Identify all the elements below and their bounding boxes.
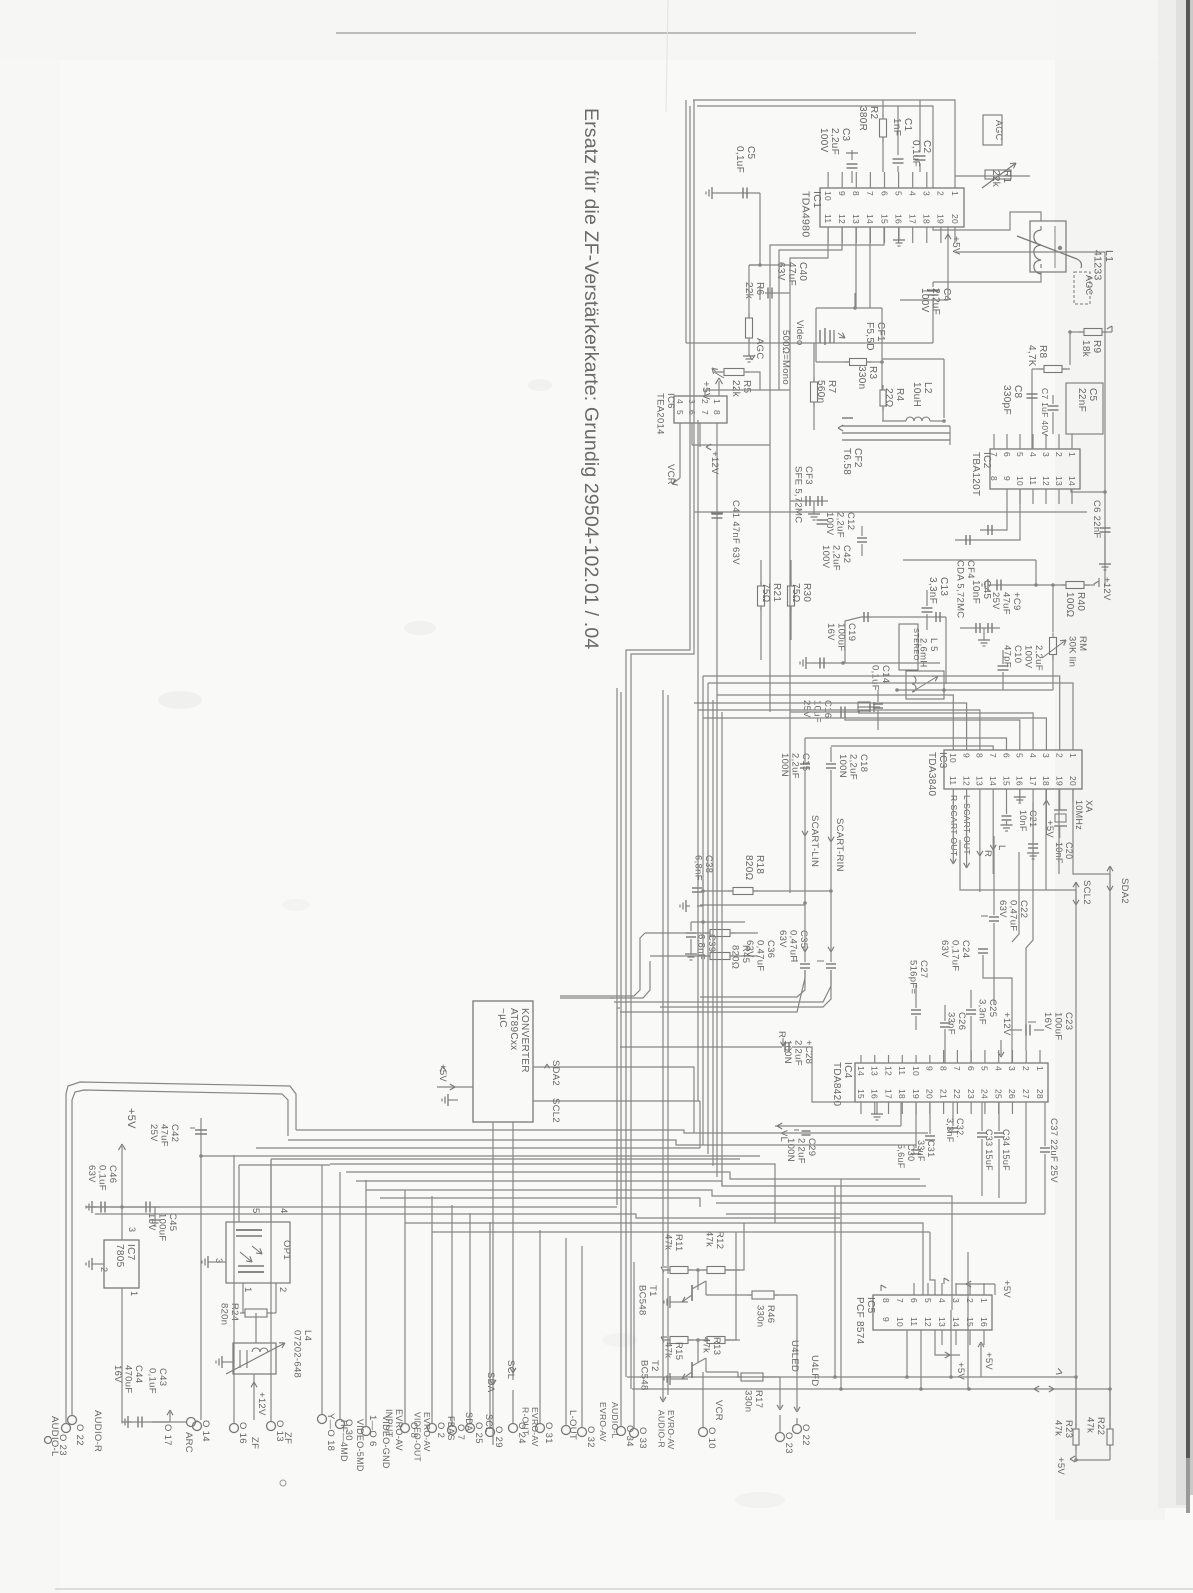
capacitor C35 0.47uF 63V [777, 930, 836, 968]
svg-text:R23: R23 [1063, 1420, 1074, 1438]
svg-text:10nF: 10nF [970, 580, 981, 604]
svg-text:L: L [996, 845, 1007, 851]
wire left frame curve [66, 1082, 296, 1420]
svg-text:R7: R7 [826, 380, 837, 394]
svg-text:18: 18 [1041, 776, 1051, 786]
variable inductor L1 41233 [1017, 221, 1082, 274]
terminal O22 left [68, 1412, 86, 1446]
svg-text:820Ω: 820Ω [730, 945, 741, 969]
svg-text:6: 6 [879, 191, 889, 196]
svg-text:0,1uF: 0,1uF [734, 146, 745, 173]
svg-text:CDA 5,72MC: CDA 5,72MC [955, 560, 966, 618]
svg-text:C31: C31 [926, 1140, 936, 1157]
svg-text:C5: C5 [1087, 388, 1098, 402]
svg-text:O 2: O 2 [435, 1422, 446, 1438]
svg-text:C46: C46 [107, 1165, 118, 1183]
svg-text:O 17: O 17 [162, 1424, 173, 1446]
svg-text:10: 10 [1015, 476, 1025, 486]
trimmer R1 22k [955, 163, 1030, 188]
svg-text:4,7K: 4,7K [1026, 345, 1037, 367]
svg-text:7805: 7805 [114, 1244, 125, 1268]
capacitor C1 1nF [891, 106, 913, 172]
svg-text:14: 14 [988, 776, 998, 786]
resistor R7 560R [811, 343, 838, 430]
svg-text:33uF: 33uF [916, 1140, 926, 1162]
resistor R8 4.7K [1026, 345, 1070, 373]
svg-text:16: 16 [870, 1089, 880, 1099]
svg-text:15: 15 [856, 1089, 866, 1099]
IC4 pin stubs [861, 1050, 1040, 1114]
svg-text:TDA4980: TDA4980 [800, 191, 812, 237]
label R-SCART-OUT [949, 795, 959, 864]
IC6 TEA2014 [674, 396, 727, 423]
svg-text:O 23: O 23 [57, 1434, 68, 1456]
svg-text:PCF 8574: PCF 8574 [854, 1297, 865, 1345]
svg-text:R11: R11 [673, 1234, 684, 1252]
svg-text:9: 9 [961, 753, 971, 758]
svg-text:C26: C26 [956, 1012, 967, 1030]
terminal AUDIO-L [45, 1416, 61, 1457]
svg-text:15: 15 [1001, 776, 1011, 786]
svg-text:O 10: O 10 [706, 1427, 717, 1449]
svg-text:AT89Cxx: AT89Cxx [508, 1008, 519, 1050]
svg-text:9: 9 [1002, 476, 1012, 481]
svg-text:+5V: +5V [1001, 1280, 1012, 1298]
resistor R20 75R [788, 560, 813, 640]
svg-text:13: 13 [937, 1317, 947, 1327]
svg-text:100uF: 100uF [1053, 1012, 1064, 1040]
svg-text:R4: R4 [894, 388, 905, 402]
svg-text:11: 11 [897, 1066, 907, 1075]
svg-text:8: 8 [989, 476, 999, 481]
terminal O22 [793, 1424, 812, 1446]
svg-text:R-SCART-OUT: R-SCART-OUT [949, 795, 959, 856]
svg-text:C19: C19 [846, 623, 857, 641]
svg-text:100N: 100N [782, 1040, 793, 1064]
svg-text:560n: 560n [815, 380, 826, 403]
wire scart riser [614, 770, 831, 1012]
svg-text:C3: C3 [840, 128, 851, 142]
svg-text:2: 2 [1054, 452, 1064, 457]
svg-text:16V: 16V [1042, 1012, 1053, 1030]
svg-text:26: 26 [1007, 1089, 1017, 1099]
svg-text:CF3: CF3 [803, 466, 814, 485]
inductor L2 10uH [882, 359, 946, 423]
wire staircase to IC5 [860, 1223, 935, 1295]
svg-text:EVRO-AV: EVRO-AV [666, 1410, 676, 1450]
svg-text:1: 1 [979, 1298, 989, 1303]
svg-text:SFE 5,72MC: SFE 5,72MC [793, 466, 804, 523]
capacitor C39 6.8nF [685, 920, 745, 960]
svg-text:3,3nF: 3,3nF [945, 1118, 955, 1143]
resistor R17 330R [736, 1373, 780, 1412]
svg-text:24: 24 [980, 1089, 990, 1099]
svg-text:470uF: 470uF [123, 1365, 134, 1393]
svg-text:13: 13 [1054, 476, 1064, 486]
svg-text:C1: C1 [902, 118, 913, 132]
wire left vertical bundle [617, 100, 694, 1389]
resistor R23 47k [1053, 1377, 1080, 1460]
svg-text:+12V: +12V [1101, 577, 1112, 601]
capacitor C25 3.3nF [966, 990, 998, 1063]
wire mid vertical pair [663, 690, 668, 1274]
capacitor C20 10nF [1027, 802, 1074, 864]
svg-text:1—O 6: 1—O 6 [367, 1415, 378, 1447]
svg-text:8: 8 [938, 1066, 948, 1071]
svg-text:4: 4 [907, 191, 917, 196]
svg-text:8: 8 [712, 410, 722, 415]
svg-text:19: 19 [936, 214, 946, 224]
wire bottom rail 2 [632, 1386, 1112, 1392]
svg-text:CF2: CF2 [852, 448, 863, 468]
svg-text:FBAS: FBAS [446, 1416, 456, 1441]
svg-text:25: 25 [993, 1089, 1003, 1099]
inductor L5 2.6mH [906, 638, 944, 699]
svg-text:330n: 330n [755, 1305, 766, 1327]
label SDA terminal [485, 1372, 496, 1393]
capacitor C4 2.2uF 100V [919, 282, 952, 343]
terminal O13 ZF [267, 1160, 294, 1444]
svg-text:C34 15uF: C34 15uF [1001, 1129, 1011, 1171]
label L arrow [990, 802, 1007, 874]
label 500R-Mono [780, 330, 791, 385]
resistor R6 22k [743, 263, 790, 362]
label SCART-LIN [802, 815, 820, 867]
AGC dashed box [1074, 272, 1094, 304]
svg-text:TBA120T: TBA120T [970, 452, 981, 496]
+5V arrow main [119, 1108, 138, 1207]
label IC1 [800, 191, 824, 237]
svg-text:R13: R13 [711, 1337, 722, 1355]
svg-text:L 5: L 5 [928, 638, 939, 652]
svg-text:2,2uF: 2,2uF [930, 288, 941, 315]
+5V riser [978, 1342, 994, 1377]
svg-text:9: 9 [925, 1066, 935, 1071]
svg-text:C45: C45 [167, 1213, 178, 1231]
title: Ersatz fuer die ZF-Verstaerkerkarte Grundig 29504-102.01/.04 [580, 108, 602, 649]
svg-text:1: 1 [1067, 452, 1077, 457]
capacitor C33 15uF [977, 1102, 994, 1196]
svg-text:13: 13 [851, 214, 861, 224]
svg-text:1: 1 [950, 191, 960, 196]
svg-text:16V: 16V [112, 1365, 123, 1383]
optocoupler OP1 box [226, 1222, 292, 1283]
wire SCL2 [960, 874, 1092, 1426]
svg-text:+C9: +C9 [1011, 592, 1022, 611]
svg-text:8: 8 [881, 1298, 891, 1303]
svg-text:47k: 47k [1053, 1420, 1064, 1436]
svg-text:10MHz: 10MHz [1074, 800, 1084, 830]
svg-text:10uH: 10uH [911, 382, 922, 407]
svg-text:8: 8 [975, 753, 985, 758]
svg-text:23: 23 [966, 1089, 976, 1099]
svg-text:63V: 63V [997, 900, 1008, 918]
label AUDIO-R [92, 1410, 103, 1452]
svg-text:5: 5 [1015, 452, 1025, 457]
terminal O23 [776, 1432, 795, 1454]
svg-text:100N: 100N [779, 753, 790, 777]
wire frame IC2 [900, 252, 1105, 430]
svg-text:R12: R12 [714, 1231, 725, 1249]
svg-text:2: 2 [965, 1298, 975, 1303]
svg-text:47k: 47k [704, 1231, 715, 1247]
svg-text:L4: L4 [302, 1330, 313, 1341]
svg-text:22k: 22k [990, 170, 1001, 188]
svg-text:7: 7 [952, 1066, 962, 1071]
svg-text:8: 8 [851, 191, 861, 196]
label IC4 [831, 1062, 853, 1106]
capacitor C6 22nF [1071, 489, 1111, 570]
svg-text:9: 9 [837, 191, 847, 196]
label L1 41233 [1092, 250, 1116, 281]
svg-text:0,1uF: 0,1uF [870, 665, 881, 691]
IC7 pin2 ground [86, 1258, 109, 1272]
terminal O33 [630, 1262, 649, 1449]
svg-text:R15: R15 [673, 1342, 684, 1360]
svg-text:9: 9 [881, 1317, 891, 1322]
svg-text:1: 1 [1035, 1066, 1045, 1071]
terminal O14 [193, 1420, 212, 1442]
svg-text:C32.: C32. [955, 1118, 965, 1138]
svg-text:3,3nF: 3,3nF [977, 999, 988, 1025]
svg-text:SCL: SCL [484, 1414, 494, 1432]
svg-text:330n: 330n [856, 366, 867, 389]
terminal O16 ZF [230, 1155, 261, 1449]
svg-text:20: 20 [925, 1089, 935, 1099]
wire R17 to O23 [777, 1377, 783, 1432]
svg-text:47uF: 47uF [1001, 592, 1012, 615]
wire IC6 pin2 right [705, 390, 790, 396]
capacitor C18 2.2uF 100V [826, 747, 869, 780]
IC2 pin stubs [994, 434, 1072, 504]
svg-text:R1: R1 [1001, 170, 1012, 184]
svg-text:22k: 22k [730, 380, 741, 398]
filter CF1 FS5.5D [816, 293, 886, 362]
+12V under L4 [251, 1374, 267, 1420]
label EVRO-AV AUDIO-R [657, 1270, 677, 1450]
svg-text:5: 5 [893, 191, 903, 196]
resistor R5 22k [716, 369, 760, 398]
svg-text:63V: 63V [939, 940, 950, 958]
svg-text:C18: C18 [858, 754, 869, 772]
svg-text:C27: C27 [918, 960, 929, 978]
svg-text:63V: 63V [777, 930, 788, 948]
+12V down arrow [998, 1012, 1012, 1057]
capacitor C40 47uF 63V [749, 262, 808, 300]
svg-text:L2: L2 [922, 382, 933, 394]
resistor R15 47k [661, 1337, 693, 1361]
capacitor C10 47pF [998, 645, 1024, 690]
svg-text:18k: 18k [1080, 340, 1091, 358]
svg-text:25V: 25V [148, 1124, 159, 1142]
svg-text:XA: XA [1084, 800, 1094, 813]
+5V IC5 [881, 1278, 1012, 1298]
svg-text:2,2uF: 2,2uF [829, 128, 840, 155]
faint top crease [666, 0, 668, 112]
label IC6 [655, 393, 677, 435]
terminal O6 VIDEO-GND [362, 1180, 392, 1469]
stray circle mark [280, 1480, 286, 1486]
capacitor C5 0.1uF [706, 146, 760, 265]
svg-text:7: 7 [865, 191, 875, 196]
svg-text:500Ω=Mono: 500Ω=Mono [780, 330, 791, 385]
svg-text:47uF: 47uF [786, 262, 797, 286]
filter CF2 plates [838, 418, 950, 445]
svg-text:30K lin: 30K lin [1067, 636, 1078, 667]
svg-text:T1: T1 [647, 1285, 658, 1297]
label AGC wire [749, 338, 765, 360]
svg-text:2: 2 [936, 191, 946, 196]
svg-text:16V: 16V [825, 623, 836, 641]
svg-text:75Ω: 75Ω [790, 583, 801, 603]
svg-text:+12V: +12V [709, 451, 720, 475]
svg-text:100V: 100V [824, 512, 835, 536]
svg-text:SDA2: SDA2 [550, 1060, 561, 1086]
svg-text:AUDIO-L: AUDIO-L [610, 1402, 620, 1439]
svg-text:11: 11 [823, 214, 833, 223]
opto ground pin3 [202, 1256, 226, 1268]
svg-text:27: 27 [1021, 1089, 1031, 1099]
svg-text:2,2uF: 2,2uF [793, 1040, 804, 1066]
svg-text:4: 4 [1028, 753, 1038, 758]
svg-text:2,2uF: 2,2uF [835, 512, 846, 538]
svg-text:C44: C44 [133, 1365, 144, 1383]
svg-text:IC4: IC4 [842, 1062, 853, 1079]
capacitor C28 2.2uF 100V [620, 1031, 861, 1102]
svg-text:+12V: +12V [256, 1392, 267, 1416]
potentiometer RM 30K lin [942, 585, 1088, 692]
wire long y512 [694, 390, 1087, 893]
svg-text:3: 3 [213, 1258, 224, 1264]
IC1 pin stubs [828, 172, 955, 243]
svg-text:R9: R9 [1091, 340, 1102, 354]
svg-text:7: 7 [988, 753, 998, 758]
svg-text:16: 16 [893, 214, 903, 224]
svg-text:1: 1 [1068, 753, 1078, 758]
svg-text:17: 17 [907, 214, 917, 224]
svg-text:3: 3 [687, 399, 697, 404]
capacitor C19 100uF 16V [800, 623, 940, 669]
wire IC1 to L1 [686, 212, 1041, 343]
svg-text:IC3: IC3 [937, 752, 948, 769]
capacitor C32 3.3nF [945, 1102, 965, 1143]
svg-text:63V: 63V [744, 940, 755, 958]
wire SDA2 out [533, 1060, 694, 1133]
svg-text:0,47uF: 0,47uF [788, 930, 799, 961]
svg-text:28: 28 [1035, 1089, 1045, 1099]
ground IC4 pin16 [871, 1102, 883, 1120]
svg-text:0,1uF: 0,1uF [97, 1165, 108, 1191]
capacitor C42 2.2uF 100V [820, 526, 867, 571]
svg-text:11: 11 [1028, 476, 1038, 485]
crystal XA 10MHz [1054, 800, 1094, 838]
svg-text:R46: R46 [765, 1305, 776, 1323]
wire horizontal bus [86, 1130, 952, 1310]
svg-text:+12V: +12V [1001, 1012, 1012, 1036]
svg-text:R40: R40 [1075, 592, 1086, 611]
resistor R24 820R [219, 1303, 273, 1343]
svg-text:+5V: +5V [125, 1108, 137, 1129]
svg-text:63V: 63V [775, 262, 786, 281]
svg-text:6: 6 [966, 1066, 976, 1071]
wire y905 [700, 904, 805, 906]
IC7 7805 [104, 1207, 139, 1288]
svg-text:11: 11 [909, 1317, 919, 1326]
svg-text:0,47uF: 0,47uF [755, 940, 766, 971]
svg-text:12: 12 [883, 1066, 893, 1076]
svg-text:11: 11 [948, 776, 958, 785]
resistor R12 47k [688, 1223, 744, 1274]
terminal O18 HF [318, 1165, 350, 1462]
svg-text:Ersatz für die ZF-Verstärke: Ersatz für die ZF-Verstärkerkarte: Grund… [580, 108, 602, 649]
svg-text:4: 4 [1028, 452, 1038, 457]
svg-text:RM: RM [1077, 636, 1088, 651]
svg-text:100uF: 100uF [157, 1213, 168, 1241]
top rule line [336, 32, 916, 34]
svg-text:12: 12 [1041, 476, 1051, 486]
svg-text:22nF: 22nF [1076, 388, 1087, 412]
label Video [794, 320, 805, 346]
svg-text:C23: C23 [1063, 1012, 1074, 1030]
svg-text:2: 2 [277, 1287, 288, 1293]
svg-text:+5V: +5V [955, 1362, 966, 1380]
+5V bottom right [1055, 1456, 1110, 1475]
wire R46 to O22 [794, 1295, 800, 1425]
capacitor C38 6.8nF [680, 855, 714, 912]
svg-text:INPUT: INPUT [384, 1409, 394, 1438]
svg-text:IC7: IC7 [125, 1244, 136, 1261]
svg-text:IC2: IC2 [981, 452, 992, 469]
svg-text:AGC: AGC [754, 338, 765, 360]
svg-text:Video: Video [794, 320, 805, 346]
label SCART-RIN [828, 818, 845, 872]
svg-text:R17: R17 [753, 1390, 764, 1408]
filter CF2 T6.58 label [841, 448, 863, 475]
svg-text:SDA: SDA [464, 1412, 474, 1431]
svg-text:10: 10 [823, 191, 833, 201]
label VL wire [775, 1102, 901, 1142]
svg-text:4: 4 [937, 1298, 947, 1303]
opto wires down [243, 1283, 276, 1313]
wire IC5 frame [835, 1179, 841, 1389]
wire pin20 to +5V [945, 227, 961, 255]
right scan edge shadow [1158, 0, 1193, 1513]
wire L5 top loop [845, 612, 946, 692]
svg-text:4: 4 [993, 1066, 1003, 1071]
capacitor C8 330pF [1001, 369, 1044, 449]
capacitor C34 15uF [994, 1102, 1011, 1198]
svg-text:17: 17 [883, 1089, 893, 1099]
svg-text:TDA8420: TDA8420 [831, 1062, 842, 1106]
svg-text:O 22: O 22 [800, 1424, 811, 1446]
svg-text:2: 2 [700, 399, 710, 404]
label SCL terminal [505, 1360, 516, 1379]
svg-text:ARC: ARC [183, 1432, 194, 1453]
svg-text:C12: C12 [845, 512, 856, 530]
svg-text:5: 5 [980, 1066, 990, 1071]
capacitor C13 3.3nF [922, 577, 950, 630]
filter CF4 CDA5.72MC [955, 560, 1001, 646]
capacitor C43 0.1uF [147, 1368, 174, 1422]
svg-text:3: 3 [922, 191, 932, 196]
svg-text:EVRO-AV: EVRO-AV [598, 1402, 608, 1442]
resistor R3 330n [816, 359, 884, 390]
svg-text:R18: R18 [754, 855, 765, 874]
svg-text:18: 18 [897, 1089, 907, 1099]
svg-text:BC548: BC548 [637, 1285, 648, 1316]
svg-text:100N: 100N [837, 754, 848, 778]
wire IC1 pins down-left [770, 227, 905, 445]
